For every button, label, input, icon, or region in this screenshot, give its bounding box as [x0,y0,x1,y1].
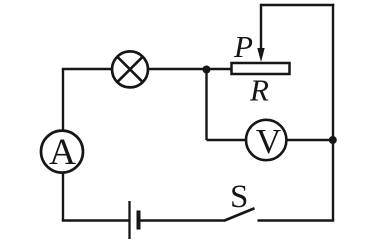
svg-text:V: V [256,122,281,161]
wire switch to corner [258,219,335,221]
svg-text:R: R [249,73,269,108]
node junction left [203,66,211,74]
voltmeter V [246,120,286,161]
wiper arrowhead [257,48,264,62]
rheostat R [232,63,290,74]
wire voltmeter branch horizontal [207,139,267,141]
lamp [112,51,148,87]
node junction right [329,136,337,144]
battery [130,201,139,239]
svg-text:P: P [233,29,253,64]
wire right vertical [332,4,334,221]
svg-text:S: S [230,179,248,215]
wire battery to switch [139,219,225,221]
switch S [224,208,255,220]
wire voltmeter to right vertical [287,139,333,141]
wire wiper vertical [260,4,262,52]
wire voltmeter branch vertical [205,69,207,140]
wire top right horizontal [261,4,334,6]
wire top horizontal [62,68,232,70]
wire bottom left [62,219,129,221]
wire left vertical [62,69,64,221]
ammeter A [41,131,83,173]
svg-text:A: A [49,132,76,173]
